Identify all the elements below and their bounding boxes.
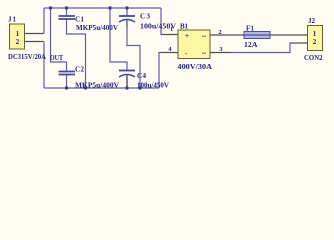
svg-text:C2: C2 xyxy=(75,66,85,74)
wire B1 pin3 to J2 pin2 xyxy=(231,43,292,53)
junction dot top rail x110 xyxy=(108,6,111,9)
wire top rail down to B1 pin1 xyxy=(161,8,162,35)
svg-text:C1: C1 xyxy=(75,16,85,24)
J2 pin 2 stub xyxy=(291,42,308,44)
wire C1 top lead xyxy=(66,8,68,16)
svg-text:+: + xyxy=(185,31,189,40)
svg-text:C4: C4 xyxy=(137,72,147,80)
svg-text:MKP5u/400V: MKP5u/400V xyxy=(75,82,119,90)
junction dot bottom rail x140 xyxy=(138,86,141,89)
svg-text:100u/450V: 100u/450V xyxy=(137,82,169,90)
J1 pin 1 stub xyxy=(25,33,44,35)
svg-text:F1: F1 xyxy=(246,25,255,33)
B1 pin 2 stub to fuse xyxy=(210,29,244,36)
wire C3 bottom jog to bottom rail xyxy=(127,27,140,88)
capacitor C3 (polarized) xyxy=(119,13,176,31)
svg-text:400V/30A: 400V/30A xyxy=(178,62,213,71)
wire J1 pin2 down to bottom rail xyxy=(43,42,45,89)
svg-text:J2: J2 xyxy=(308,17,316,25)
wire bottom rail up to B1 pin4 xyxy=(159,53,162,89)
svg-text:12A: 12A xyxy=(244,41,258,49)
svg-text:~: ~ xyxy=(202,32,206,41)
wire C2 branch from top rail xyxy=(51,8,67,71)
svg-text:CON2: CON2 xyxy=(304,54,323,62)
svg-text:MKP5u/400V: MKP5u/400V xyxy=(76,24,118,32)
bridge rectifier B1 xyxy=(178,23,213,72)
svg-text:B1: B1 xyxy=(180,23,189,31)
svg-text:2: 2 xyxy=(218,29,221,36)
B1 pin 3 stub xyxy=(210,46,231,53)
connector J2 xyxy=(304,17,323,62)
B1 pin 1 stub xyxy=(162,26,179,35)
svg-text:DC315V/20A: DC315V/20A xyxy=(8,53,46,61)
capacitor C1 xyxy=(59,16,119,33)
junction dot top rail x66.5 xyxy=(65,6,68,9)
svg-text:J1: J1 xyxy=(8,16,17,24)
junction dot bottom rail x85.5 xyxy=(84,86,87,89)
wire C3 top lead xyxy=(126,8,128,16)
svg-text:2: 2 xyxy=(313,38,317,46)
wire fuse to J2 pin1 xyxy=(270,34,308,36)
wire C4 branch from top rail xyxy=(110,8,127,71)
svg-text:1: 1 xyxy=(170,26,173,33)
wire J1 pin1 up to top rail xyxy=(43,8,45,34)
junction dot top rail x127 xyxy=(125,6,128,9)
svg-text:1: 1 xyxy=(16,30,20,38)
capacitor C2 xyxy=(59,66,120,90)
B1 pin 4 stub xyxy=(162,46,179,53)
svg-text:OUT: OUT xyxy=(50,54,63,62)
wire top rail xyxy=(44,7,161,9)
junction dot bottom rail x127 xyxy=(125,86,128,89)
wire C4 bottom lead xyxy=(126,77,128,88)
wire C1 bottom jog to bottom rail xyxy=(67,19,86,88)
svg-text:~: ~ xyxy=(202,49,206,58)
svg-text:2: 2 xyxy=(16,38,20,46)
J1 pin 2 stub xyxy=(25,41,44,43)
connector J1 xyxy=(8,16,25,50)
fuse F1 xyxy=(244,25,270,50)
junction dot top rail x50.5 xyxy=(49,6,52,9)
capacitor C4 (polarized) xyxy=(119,71,169,90)
junction dot bottom rail x66.5 xyxy=(65,86,68,89)
wire bottom rail xyxy=(44,87,159,89)
svg-text:1: 1 xyxy=(313,30,317,38)
wire C2 bottom lead xyxy=(66,75,68,88)
